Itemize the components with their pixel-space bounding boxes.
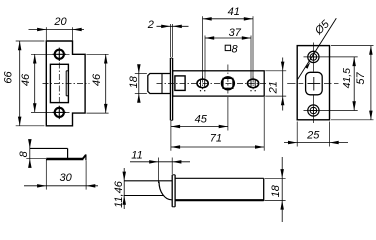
screw hole centerline top — [304, 56, 358, 58]
flat strike plate outline — [297, 46, 329, 120]
bolt tail block — [175, 76, 185, 91]
strike plate side view plate with lip — [46, 158, 83, 160]
latch bolt bevel line — [161, 74, 163, 94]
latch hole cross — [308, 83, 321, 85]
dimension 21 (case height) — [265, 70, 286, 72]
svg-text:11,46: 11,46 — [113, 180, 125, 208]
dimension 41 (hole spacing) — [202, 16, 204, 79]
dimension 25 (flat plate width) — [296, 122, 298, 147]
dimension 41,5 (hole spacing flat plate) — [353, 57, 355, 111]
latch case body — [173, 71, 265, 96]
faceplate (top view) — [169, 58, 171, 120]
dimension 11,46 (bolt diameter) — [123, 168, 125, 209]
latch bolt (top view) — [148, 74, 171, 94]
horizontal centerline flat plate — [287, 83, 295, 85]
dimension 18 (case width bottom view) — [265, 177, 286, 179]
svg-text:46: 46 — [20, 73, 32, 86]
svg-text:2: 2 — [147, 19, 154, 31]
bolt top line (bottom view) — [124, 180, 172, 182]
svg-text:18: 18 — [270, 184, 282, 197]
svg-text:30: 30 — [59, 172, 72, 184]
dimension 71 (case depth) — [170, 131, 172, 151]
dimension 57 (flat plate height) — [331, 45, 374, 47]
svg-text:8: 8 — [231, 43, 238, 55]
svg-text:11: 11 — [131, 149, 142, 161]
dimension 18 (bolt height) — [135, 73, 147, 75]
dimension 30 (side view width) — [45, 159, 47, 190]
oval mounting hole right — [248, 79, 259, 88]
svg-text:21: 21 — [267, 81, 279, 94]
dimension 46 right (tab height) — [86, 53, 108, 55]
screw hole top (flat plate) — [308, 51, 319, 62]
screw hole centerline bottom — [304, 110, 358, 112]
faceplate flange (bottom view) — [171, 175, 173, 207]
vertical centerline strike plate — [58, 63, 60, 105]
vertical centerline oval left — [202, 77, 204, 90]
svg-text:8: 8 — [18, 150, 30, 157]
dimension 66 (plate height) — [16, 40, 45, 42]
horizontal centerline latch body — [157, 82, 269, 84]
dimension 37 (slot spacing) — [204, 36, 206, 79]
strike plate latch opening — [50, 64, 68, 102]
oval mounting hole left — [197, 79, 208, 88]
screw hole bottom (strike plate) — [55, 108, 64, 117]
svg-text:37: 37 — [229, 27, 242, 39]
svg-text:20: 20 — [53, 16, 67, 28]
spindle follower hub — [222, 77, 235, 90]
strike plate side view box — [30, 147, 68, 149]
vertical centerline oval right — [252, 77, 254, 90]
svg-text:Ø5: Ø5 — [312, 18, 332, 38]
dimension 8 (box depth) — [26, 158, 46, 160]
svg-text:45: 45 — [195, 113, 208, 125]
horizontal centerline strike plate — [43, 82, 90, 84]
latch opening inner lip — [65, 71, 67, 96]
dimension 20 (plate width) — [45, 27, 47, 40]
svg-text:41: 41 — [228, 6, 240, 18]
dimension 11 (bolt projection) — [157, 158, 159, 184]
svg-text:41,5: 41,5 — [341, 68, 353, 89]
screw hole bottom (flat plate) — [308, 105, 319, 116]
svg-text:57: 57 — [355, 72, 367, 85]
strike plate outline (front view) — [46, 41, 85, 126]
leader line diameter 5 — [298, 18, 337, 79]
spindle square hole — [223, 78, 233, 88]
vertical centerline flat plate — [312, 43, 314, 72]
svg-text:46: 46 — [91, 73, 103, 86]
latch hole rounded rectangle — [306, 72, 323, 95]
svg-text:66: 66 — [3, 71, 15, 84]
svg-text:25: 25 — [306, 130, 320, 142]
dimension 46 left (screw hole spacing) — [31, 53, 70, 55]
label square 8 (spindle size) — [225, 45, 230, 50]
bolt bottom line (bottom view) — [124, 195, 163, 197]
vertical centerline follower — [227, 65, 229, 96]
bolt bevel curve (bottom view) — [159, 182, 172, 200]
svg-text:71: 71 — [210, 132, 222, 144]
svg-text:18: 18 — [128, 75, 140, 88]
screw hole top (strike plate) — [55, 50, 64, 59]
dimension 2 (faceplate thickness) — [169, 24, 171, 57]
dimension 45 (faceplate to spindle) — [170, 121, 172, 131]
latch case (bottom view) — [175, 177, 264, 179]
